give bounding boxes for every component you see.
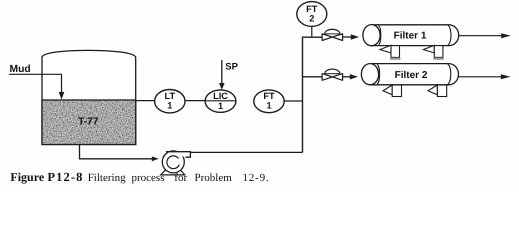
svg-text:1: 1 [218, 101, 223, 111]
main riser pipe [303, 37, 323, 152]
wire FT1 to pipe [284, 100, 302, 102]
filter 2 outlet arrowhead [501, 74, 511, 79]
mud inlet arrowhead [59, 92, 65, 100]
svg-text:1: 1 [266, 100, 271, 110]
svg-text:Mud: Mud [10, 64, 31, 75]
wire valve2 to filter2 [343, 76, 351, 78]
arrowhead into filter1 [351, 34, 359, 39]
level controller LIC1 [205, 90, 236, 112]
svg-text:T-77: T-77 [78, 117, 99, 128]
svg-text:Filter 1: Filter 1 [394, 31, 427, 42]
wire valve1 to filter1 [343, 36, 352, 38]
flow transmitter FT1 [254, 90, 284, 113]
filter 1 support feet shadows [390, 58, 401, 60]
flow transmitter FT2 [297, 2, 327, 27]
pump P (base) [161, 170, 185, 175]
svg-text:2: 2 [309, 14, 314, 24]
filter 1 outlet line [459, 35, 502, 37]
tank liquid (mud) [42, 100, 136, 145]
SP arrowhead into LIC1 [219, 83, 225, 90]
svg-text:1: 1 [167, 100, 172, 110]
tank T-77 shell [42, 50, 136, 144]
wire LT1 to LIC1 [185, 100, 205, 102]
pump impeller arc [167, 156, 179, 169]
control valve V2 [325, 69, 340, 74]
level transmitter LT1 [155, 90, 185, 113]
svg-text:LIC: LIC [213, 91, 228, 101]
svg-text:Filter 2: Filter 2 [395, 70, 428, 81]
pump discharge line [190, 151, 302, 153]
pump casing [162, 151, 184, 173]
mud inlet wire [9, 74, 62, 93]
svg-text:SP: SP [225, 61, 238, 72]
wire FT2 to branch pipe [311, 27, 313, 38]
SP setpoint signal wire [221, 60, 223, 84]
wire tank to LT1 [136, 100, 155, 102]
svg-text:FT: FT [306, 4, 318, 14]
filter 1 supports [380, 45, 443, 57]
pump suction arrowhead [152, 156, 159, 161]
filter 2 vessel [361, 64, 458, 85]
filter 2 supports [383, 85, 447, 97]
filter 2 outlet line [459, 76, 502, 78]
figure caption [0, 172, 519, 187]
tank outlet pipe to pump [80, 145, 153, 159]
branch pipe to valve 2 [303, 76, 323, 78]
control valve V1 [325, 29, 340, 34]
arrowhead into filter2 [350, 74, 358, 79]
pump discharge stub [166, 152, 190, 158]
filter 1 outlet arrowhead [501, 33, 511, 38]
filter 1 vessel [363, 25, 459, 46]
